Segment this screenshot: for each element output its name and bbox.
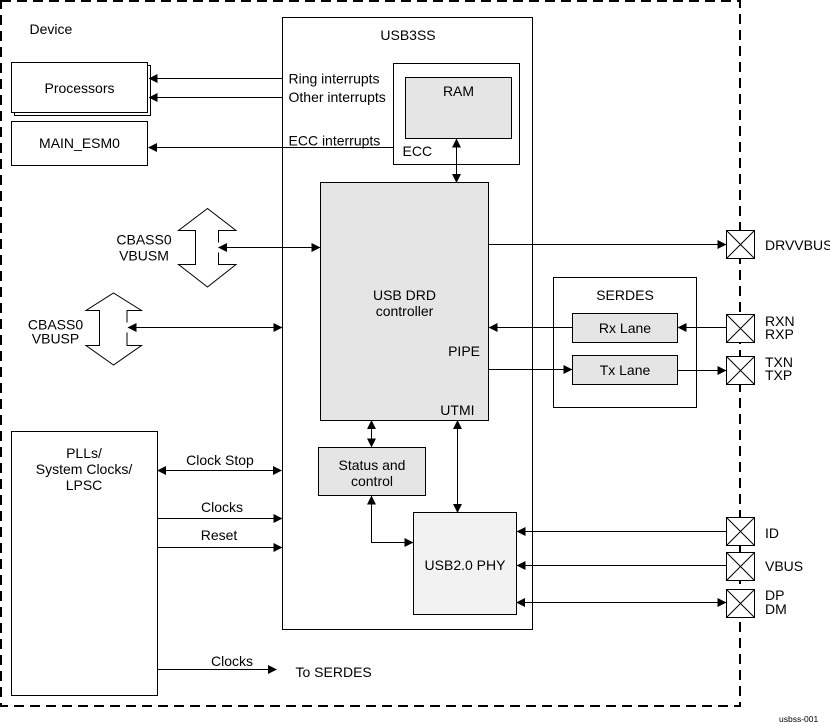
svg-text:Rx Lane: Rx Lane <box>599 320 651 336</box>
svg-text:VBUS: VBUS <box>765 558 803 574</box>
svg-text:PLLs/: PLLs/ <box>66 445 102 461</box>
svg-text:SERDES: SERDES <box>596 287 654 303</box>
svg-text:DM: DM <box>765 601 787 617</box>
svg-text:RAM: RAM <box>443 83 474 99</box>
svg-text:USB3SS: USB3SS <box>380 27 435 43</box>
svg-text:RXP: RXP <box>765 326 794 342</box>
svg-text:control: control <box>351 473 393 489</box>
svg-text:Ring interrupts: Ring interrupts <box>289 71 380 87</box>
svg-text:Device: Device <box>30 21 73 37</box>
svg-text:TXP: TXP <box>765 367 792 383</box>
svg-text:LPSC: LPSC <box>66 477 103 493</box>
svg-text:Clock Stop: Clock Stop <box>186 452 254 468</box>
svg-text:USB2.0 PHY: USB2.0 PHY <box>425 557 507 573</box>
svg-text:Tx Lane: Tx Lane <box>600 362 651 378</box>
svg-text:usbss-001: usbss-001 <box>779 714 818 723</box>
svg-text:ID: ID <box>765 525 779 541</box>
svg-text:Reset: Reset <box>201 527 238 543</box>
svg-text:To SERDES: To SERDES <box>296 664 372 680</box>
svg-text:DRVVBUS: DRVVBUS <box>765 237 830 253</box>
svg-text:CBASS0: CBASS0 <box>116 232 171 248</box>
svg-text:VBUSP: VBUSP <box>32 331 79 347</box>
svg-text:Status and: Status and <box>339 457 406 473</box>
svg-text:ECC interrupts: ECC interrupts <box>289 133 381 149</box>
svg-text:Other interrupts: Other interrupts <box>289 89 386 105</box>
svg-text:ECC: ECC <box>403 143 433 159</box>
svg-text:USB DRD: USB DRD <box>373 287 436 303</box>
svg-text:PIPE: PIPE <box>448 343 480 359</box>
svg-text:Clocks: Clocks <box>211 653 253 669</box>
svg-text:System Clocks/: System Clocks/ <box>36 461 133 477</box>
svg-text:Processors: Processors <box>44 80 114 96</box>
svg-text:UTMI: UTMI <box>440 402 474 418</box>
svg-text:Clocks: Clocks <box>201 499 243 515</box>
svg-text:controller: controller <box>376 303 434 319</box>
svg-text:VBUSM: VBUSM <box>119 248 169 264</box>
svg-text:MAIN_ESM0: MAIN_ESM0 <box>39 135 120 151</box>
